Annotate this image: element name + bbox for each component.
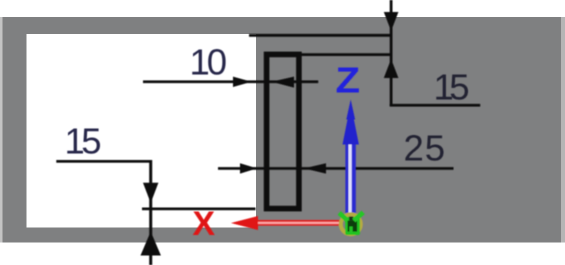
sketch line top edge y=35	[249, 34, 392, 37]
dimension 15 right down arrow	[384, 12, 399, 31]
X axis red shaft	[255, 220, 342, 226]
svg-text:15: 15	[65, 121, 102, 162]
baseline centerline y=209	[142, 208, 256, 211]
origin marker ring	[341, 214, 361, 234]
dimension 10 arrow right-pointing	[233, 77, 252, 87]
viewport left light edge	[0, 17, 3, 243]
origin marker center green bar	[349, 227, 352, 234]
Z axis blue arrowhead	[343, 100, 359, 145]
svg-text:10: 10	[190, 42, 228, 83]
dimension 15 right vertical line	[390, 0, 393, 106]
origin marker center dark notch	[349, 217, 353, 221]
dimension 15 right leader	[390, 104, 481, 107]
origin marker green square ring	[345, 217, 360, 235]
dimension 10 line	[143, 80, 318, 83]
dimension 15 left vertical line	[149, 160, 152, 265]
dimension 15 left leader	[56, 160, 152, 163]
dimension 25 arrow right-pointing	[240, 163, 257, 173]
svg-text:15: 15	[434, 67, 470, 108]
dimension 25 arrow left-pointing	[304, 163, 326, 173]
dimension 15 left up arrow	[141, 232, 161, 256]
svg-text:X: X	[193, 205, 216, 243]
dimension 25 line	[218, 167, 454, 170]
Z axis blue shaft	[345, 144, 355, 214]
origin marker right wing	[354, 212, 363, 220]
X axis red arrowhead	[231, 216, 258, 230]
dimension 10 arrow left-pointing	[272, 77, 295, 88]
svg-text:25: 25	[404, 128, 446, 169]
dimension 15 right up arrow	[384, 59, 399, 78]
origin marker dark center	[348, 221, 358, 232]
sketch line second edge y=54	[299, 53, 392, 56]
origin marker left wing	[339, 213, 347, 221]
white model face (section)	[27, 34, 257, 228]
svg-text:Z: Z	[336, 60, 361, 101]
rectangle profile (thick)	[267, 54, 299, 208]
viewport right light edge	[561, 17, 565, 243]
dimension 15 left down arrow	[143, 183, 158, 203]
